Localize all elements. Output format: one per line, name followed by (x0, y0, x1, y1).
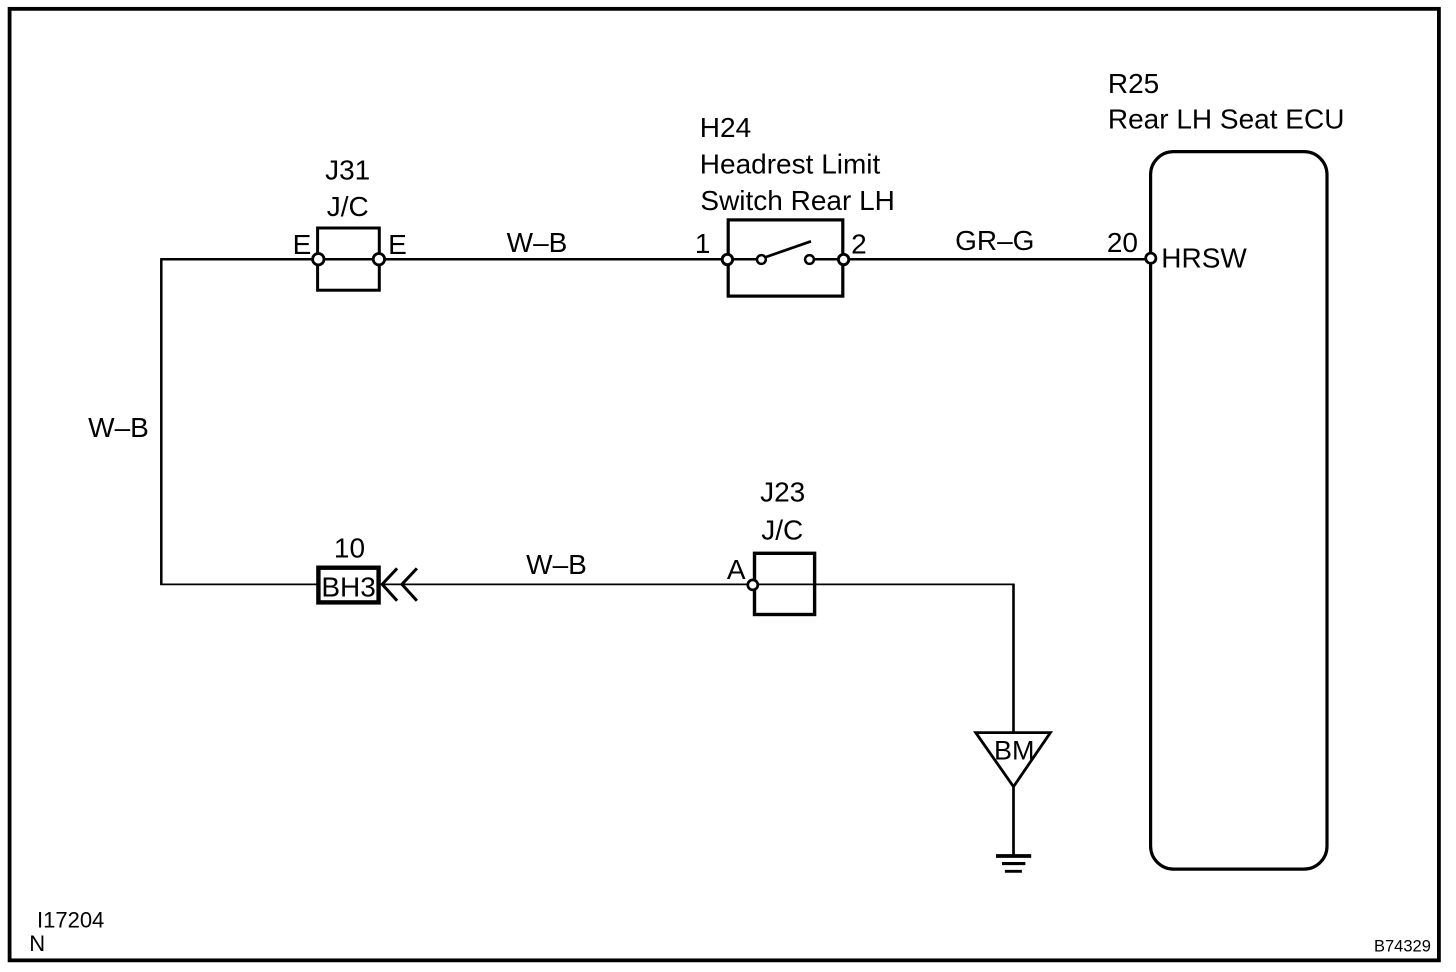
switch H24 box (728, 220, 843, 296)
wire W-B top horizontal (corner to H24 left contact) (161, 258, 761, 261)
ground point BM triangle (976, 733, 1051, 787)
svg-text:E: E (293, 229, 312, 260)
wire through J31 (318, 258, 379, 260)
svg-text:Rear LH Seat ECU: Rear LH Seat ECU (1108, 104, 1345, 135)
contact circle left inside H24 (757, 255, 766, 264)
junction box J31 (318, 228, 380, 290)
ECU R25 body (1151, 152, 1327, 870)
chevron arrow 1 (382, 568, 397, 600)
svg-text:BH3: BH3 (321, 571, 375, 602)
contact circle right inside H24 (805, 255, 814, 264)
svg-text:W–B: W–B (88, 412, 149, 443)
svg-text:Headrest Limit: Headrest Limit (700, 149, 881, 180)
wire bottom left horizontal to BH3 (160, 583, 318, 585)
chevron arrow 2 (402, 568, 417, 600)
svg-text:J/C: J/C (761, 514, 803, 545)
svg-text:1: 1 (695, 228, 711, 259)
svg-text:W–B: W–B (507, 227, 568, 258)
wire BM apex to ground (1012, 786, 1015, 855)
svg-text:BM: BM (994, 735, 1035, 765)
svg-text:H24: H24 (700, 112, 751, 143)
wire right vertical down to BM (1012, 584, 1015, 734)
svg-text:GR–G: GR–G (955, 225, 1034, 256)
pin 20 node of R25 (1146, 253, 1156, 263)
svg-text:E: E (388, 229, 407, 260)
wire GR-G (H24 right contact to R25 pin 20) (810, 258, 1151, 261)
svg-text:20: 20 (1107, 227, 1138, 258)
wire W-B bottom horizontal (chevrons to corner) (382, 583, 1014, 585)
pin 1 node of H24 (722, 254, 732, 264)
node E left of J31 (313, 254, 324, 265)
svg-text:2: 2 (851, 228, 867, 259)
svg-text:HRSW: HRSW (1161, 243, 1247, 274)
pin 2 node of H24 (838, 254, 848, 264)
svg-text:Switch Rear LH: Switch Rear LH (700, 185, 895, 216)
junction box J23 (755, 553, 815, 614)
ground symbol (996, 856, 1031, 871)
connector BH3 box (318, 568, 378, 603)
node A of J23 (748, 580, 758, 590)
svg-text:R25: R25 (1108, 68, 1159, 99)
svg-text:N: N (29, 931, 45, 956)
switch arm of H24 (766, 241, 811, 257)
svg-text:I17204: I17204 (37, 908, 104, 933)
svg-text:W–B: W–B (526, 549, 587, 580)
svg-text:B74329: B74329 (1374, 938, 1431, 956)
node E right of J31 (373, 254, 384, 265)
wire W-B left vertical (160, 258, 163, 584)
svg-text:J/C: J/C (327, 191, 369, 222)
svg-text:J31: J31 (325, 155, 370, 186)
svg-text:J23: J23 (760, 477, 805, 508)
svg-text:10: 10 (334, 533, 365, 564)
svg-text:A: A (727, 554, 746, 585)
